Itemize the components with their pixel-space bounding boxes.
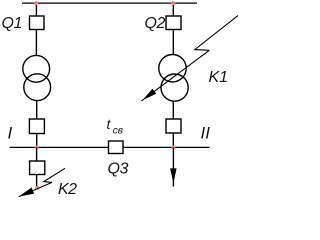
wire: feeder below breaker [36, 175, 38, 189]
svg-text:II: II [201, 124, 211, 143]
wire: breaker to bus II [172, 133, 174, 147]
breaker: T2 low side [166, 119, 181, 133]
top feeder wire [22, 2, 197, 4]
svg-text:K2: K2 [58, 181, 77, 198]
bus II line [123, 146, 210, 148]
svg-text:Q1: Q1 [2, 15, 22, 32]
svg-text:Q2: Q2 [145, 15, 166, 32]
fault arrow K2 (lightning bolt) [19, 168, 65, 196]
node: fault point K2 on feeder [35, 186, 39, 190]
wire: Q2 to transformer T2 [172, 30, 174, 55]
breaker Q1 [30, 16, 45, 30]
wire: drop to Q2 [172, 3, 174, 16]
node: tap junction above Q2 [171, 1, 175, 5]
fault arrow K1 (lightning bolt through T2) [142, 16, 239, 101]
svg-text:I: I [8, 124, 13, 143]
tie breaker Q3 [109, 141, 124, 154]
bus I line [10, 146, 109, 148]
svg-text:K1: K1 [209, 69, 229, 86]
transformer T2 secondary winding [161, 74, 188, 101]
svg-text:t: t [107, 116, 112, 132]
breaker: T1 low side [29, 119, 44, 134]
wire: bus I to feeder breaker [36, 147, 38, 161]
load arrow on bus II feeder [171, 169, 177, 182]
wire: T2 to bus-side breaker [172, 101, 174, 120]
svg-text:Q3: Q3 [108, 161, 129, 178]
wire: Q1 to transformer T1 [35, 30, 37, 56]
svg-text:св: св [113, 126, 123, 137]
node: tap junction above Q1 [34, 1, 38, 5]
wire: load feeder below bus II [172, 147, 174, 186]
transformer T1 secondary winding [24, 74, 51, 101]
wire: drop to Q1 [35, 3, 37, 16]
breaker Q2 [166, 16, 181, 30]
node: junction of branch with bus I [35, 145, 39, 149]
node: junction of branch with bus II [171, 145, 175, 149]
wire: T1 to bus-side breaker [36, 101, 38, 120]
transformer T1 primary winding [23, 55, 50, 82]
breaker: feeder on bus I [30, 161, 45, 175]
wire: breaker to bus I [36, 134, 38, 148]
transformer T2 primary winding [159, 54, 186, 81]
